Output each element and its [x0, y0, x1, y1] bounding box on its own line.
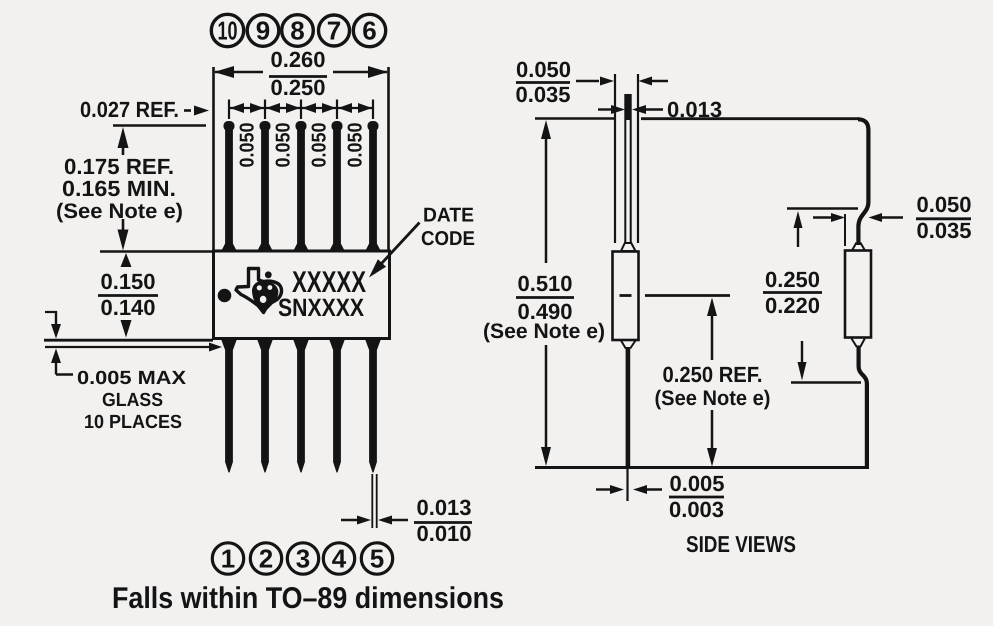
label 0.005 over 0.003 — [669, 471, 725, 522]
svg-text:0.027 REF.: 0.027 REF. — [80, 97, 179, 122]
label 0.013 over 0.010 — [416, 495, 471, 546]
svg-text:SIDE VIEWS: SIDE VIEWS — [686, 531, 796, 557]
bottom pin 3 — [293, 339, 309, 473]
svg-text:6: 6 — [362, 16, 376, 46]
svg-text:0.510: 0.510 — [517, 271, 572, 296]
label 0.005 MAX GLASS 10 PLACES — [77, 368, 186, 433]
top pin 9 — [257, 121, 273, 252]
label 0.175 REF. 0.165 MIN. (See Note e) — [56, 154, 183, 223]
side view 1 upper lead — [625, 95, 630, 243]
svg-text:9: 9 — [256, 16, 270, 46]
seating line — [535, 466, 869, 469]
pin pitch dimension row with ticks and arrows — [228, 100, 373, 120]
seating plane dash inside body — [620, 294, 632, 297]
pin circle 9 — [247, 15, 279, 47]
label 0.050 over 0.035 (top left) — [515, 57, 571, 107]
side view 2 body — [845, 251, 871, 338]
extension line left of package width dim — [212, 67, 215, 250]
svg-text:0.050: 0.050 — [916, 192, 971, 217]
bottom pin 4 — [329, 339, 345, 473]
svg-text:(See Note e): (See Note e) — [483, 320, 605, 343]
side view 1 lower lead — [626, 347, 631, 467]
pin circle 7 — [319, 15, 350, 46]
svg-text:0.005 MAX: 0.005 MAX — [77, 368, 186, 389]
side view 1 lead tip below seating line — [626, 467, 628, 501]
label DATE CODE — [421, 205, 475, 251]
pin circle 2 — [250, 543, 281, 574]
svg-text:0.260: 0.260 — [270, 47, 325, 72]
dimension 0.175 down arrow — [122, 219, 125, 231]
dimension 0.150/0.140 arrows — [121, 253, 132, 267]
leader line from DATE CODE to marking — [381, 223, 420, 265]
label 0.260 over 0.250 — [270, 47, 325, 100]
top pin 8 — [293, 121, 309, 252]
glass dim up arrow with elbow — [51, 349, 61, 364]
side view 1 body — [613, 252, 639, 341]
svg-text:Falls within TO–89 dimensions: Falls within TO–89 dimensions — [112, 582, 504, 615]
label 0.050 over 0.035 (right) — [916, 192, 971, 243]
svg-text:3: 3 — [296, 544, 310, 574]
dimension 0.005/0.003 arrows — [596, 488, 611, 490]
svg-text:0.035: 0.035 — [916, 218, 971, 243]
glass seal line with right arrow — [45, 346, 210, 348]
svg-text:0.003: 0.003 — [669, 497, 724, 522]
upper tick line of 0.250/0.220 — [787, 207, 858, 209]
svg-text:0.250 REF.: 0.250 REF. — [663, 362, 763, 387]
glass dim down arrow — [45, 311, 57, 313]
side view 1 bottom flare — [621, 341, 636, 349]
svg-text:0.005: 0.005 — [669, 471, 724, 496]
pin 5 width extension lines — [371, 474, 373, 528]
svg-text:DATE: DATE — [423, 205, 474, 227]
side view 2 upper lead with corner and jog — [858, 119, 868, 245]
TI logo — [236, 269, 282, 313]
svg-text:0.050: 0.050 — [237, 123, 259, 168]
bottom pin 1 — [221, 339, 237, 473]
dimension 0.250 REF. — [707, 298, 717, 317]
extension line right of package width dim — [387, 67, 390, 250]
top reference line left segment — [535, 117, 614, 120]
label 0.150 over 0.140 — [100, 269, 155, 320]
svg-text:GLASS: GLASS — [102, 390, 163, 411]
bottom pin 5 — [365, 339, 381, 473]
svg-text:8: 8 — [290, 16, 304, 46]
dimension 0.013/0.010 arrows — [341, 519, 358, 521]
side view 2 lower lead with jog — [859, 346, 867, 467]
svg-text:0.050: 0.050 — [273, 123, 295, 168]
pin circle 6 — [353, 14, 385, 46]
svg-text:0.150: 0.150 — [100, 269, 155, 294]
svg-text:0.050: 0.050 — [345, 123, 367, 168]
svg-text:(See Note e): (See Note e) — [56, 200, 183, 223]
reference line under 0.027 — [113, 124, 206, 127]
pin circle 5 — [361, 543, 392, 574]
package bottom edge extended left — [44, 339, 213, 342]
svg-text:0.250: 0.250 — [270, 75, 325, 100]
extension lines for body thickness — [614, 74, 616, 243]
dimension 0.510/0.490 — [541, 120, 551, 139]
svg-text:0.050: 0.050 — [516, 57, 571, 82]
top pin 6 — [365, 121, 381, 252]
package body outline — [214, 251, 390, 339]
pin circle 4 — [323, 543, 354, 574]
up arrow of 0.250/0.220 — [794, 211, 803, 228]
svg-text:10: 10 — [218, 16, 238, 46]
top pin 7 — [329, 121, 345, 252]
svg-text:10 PLACES: 10 PLACES — [84, 412, 182, 433]
top pin 10 — [221, 121, 237, 252]
lead thickness dim 0.013 — [598, 108, 611, 110]
svg-text:0.035: 0.035 — [515, 82, 570, 107]
svg-text:0.050: 0.050 — [309, 123, 331, 168]
label 0.250 over 0.220 — [765, 267, 820, 318]
svg-text:0.220: 0.220 — [765, 293, 820, 318]
svg-text:SNXXXX: SNXXXX — [278, 294, 364, 322]
svg-text:0.010: 0.010 — [416, 521, 471, 546]
svg-text:0.013: 0.013 — [416, 495, 471, 520]
seating plane reference line — [645, 294, 730, 297]
body thickness dim arrows — [576, 80, 599, 82]
lead width arrows (side view 2) — [813, 216, 832, 218]
svg-text:CODE: CODE — [421, 228, 475, 250]
down arrow of 0.250/0.220 — [801, 341, 803, 365]
svg-text:0.250: 0.250 — [765, 267, 820, 292]
dimension 0.175 up arrow — [118, 127, 129, 148]
svg-text:(See Note e): (See Note e) — [655, 387, 771, 410]
pin circle 10 — [211, 14, 243, 46]
svg-text:0.140: 0.140 — [100, 295, 155, 320]
index dot — [218, 289, 232, 303]
svg-text:5: 5 — [370, 544, 384, 574]
svg-text:7: 7 — [327, 16, 341, 46]
pin circle 1 — [212, 543, 243, 574]
svg-text:0.165 MIN.: 0.165 MIN. — [62, 176, 176, 201]
svg-text:1: 1 — [221, 544, 235, 574]
lower tick line of 0.250/0.220 — [791, 381, 861, 383]
svg-text:4: 4 — [332, 544, 347, 574]
pin circle 8 — [282, 15, 314, 47]
svg-text:2: 2 — [259, 544, 273, 574]
dimension line 0.260/0.250 with arrows — [215, 71, 387, 74]
side view 2 bottom flare — [852, 339, 865, 348]
reference line at package top extended left — [100, 250, 213, 253]
side view 1 top flare — [621, 242, 636, 251]
side view 2 top flare — [852, 243, 865, 251]
top reference line right segment — [641, 117, 859, 120]
pin circle 3 — [287, 543, 318, 574]
bottom pin 2 — [257, 339, 273, 473]
